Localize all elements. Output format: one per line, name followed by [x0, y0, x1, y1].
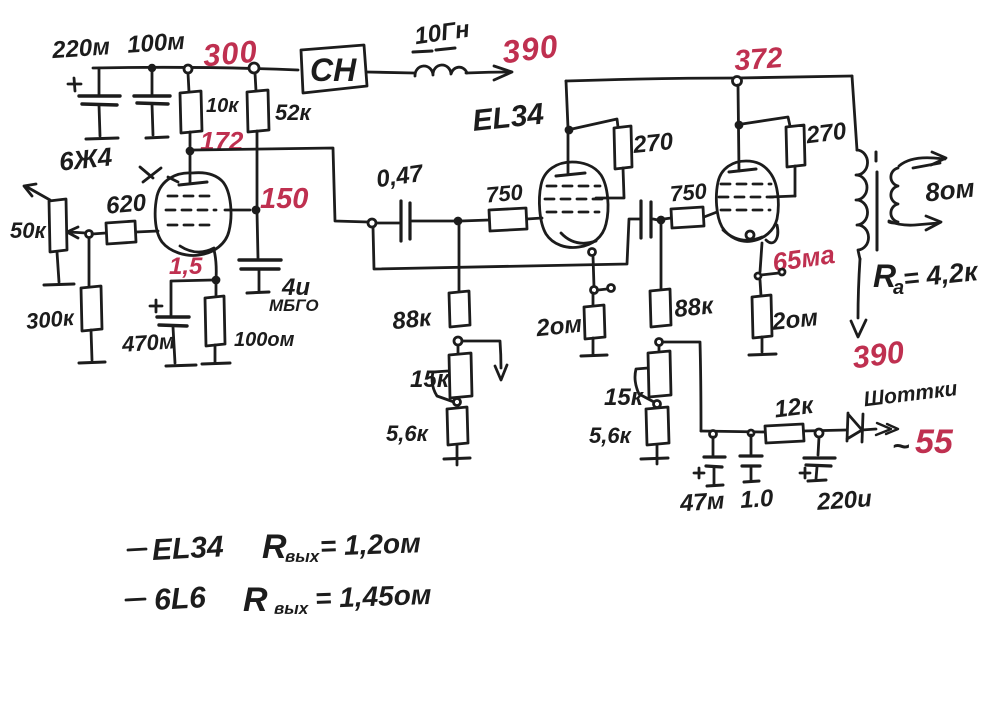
- svg-text:2ом: 2ом: [770, 304, 820, 336]
- potentiometer 50к: [49, 199, 93, 252]
- wire to bias network: [663, 342, 701, 431]
- resistor R10 750 grid stopper 2: [664, 207, 717, 228]
- secondary top lead arrow: [899, 152, 946, 168]
- wire node172 to coupling cap: [194, 148, 368, 222]
- grid cap mark V1: [140, 167, 178, 182]
- resistor R13 5,6к #2: [646, 407, 669, 464]
- wire primary to 390 arrow: [851, 259, 866, 337]
- svg-text:300к: 300к: [25, 305, 77, 334]
- secondary bottom lead arrow: [889, 216, 941, 230]
- svg-text:= 1,45ом: = 1,45ом: [315, 579, 433, 614]
- svg-text:R: R: [262, 528, 287, 566]
- node feedback tap 1: [454, 337, 462, 345]
- capacitor C7 47м: [694, 437, 725, 486]
- node 172 (plate V1): [187, 148, 193, 154]
- svg-text:вых: вых: [274, 599, 310, 618]
- diode D1 Schottky: [847, 413, 876, 442]
- node grid EL34 no.2: [658, 217, 664, 223]
- svg-text:5,6к: 5,6к: [386, 421, 430, 446]
- capacitor C8 1.0: [740, 435, 762, 482]
- svg-text:47м: 47м: [678, 487, 725, 517]
- capacitor C2 100м: [134, 65, 170, 135]
- resistor R2 52к: [247, 73, 269, 208]
- svg-text:55: 55: [915, 423, 954, 461]
- resistor R7 88к grid leak: [449, 225, 470, 327]
- svg-text:172: 172: [200, 126, 244, 156]
- node cathode V1 (1,5V): [213, 277, 219, 283]
- resistor R15 2ом cathode: [584, 293, 605, 354]
- ground for potentiometer: [44, 252, 74, 285]
- transformer core: [876, 152, 877, 250]
- ground for R5: [202, 363, 230, 364]
- svg-text:12к: 12к: [773, 392, 817, 424]
- label Ra = 4,2к: [873, 256, 980, 299]
- arrow to 390 supply: [466, 66, 512, 80]
- wire B+ rail output stage: [566, 76, 852, 81]
- capacitor C9 220и: [800, 437, 835, 481]
- tube V3 EL34: [716, 85, 778, 243]
- wire rail to transformer: [852, 76, 857, 150]
- svg-text:88к: 88к: [391, 304, 434, 335]
- arrow out of diode: [876, 423, 898, 435]
- resistor R4 300к: [81, 238, 102, 360]
- tube V2 EL34: [539, 127, 608, 256]
- wire plate V1 to second coupling cap: [373, 219, 640, 269]
- svg-text:R: R: [243, 581, 268, 619]
- cathode jack V2: [591, 256, 615, 294]
- resistor R11 88к grid leak 2: [650, 224, 671, 327]
- node 150 (screen V1): [253, 207, 259, 213]
- node bias B: [748, 430, 754, 436]
- svg-text:a: a: [893, 277, 904, 299]
- svg-text:270: 270: [631, 128, 675, 159]
- capacitor C3 4и МБГО: [239, 212, 281, 291]
- svg-text:вых: вых: [285, 547, 321, 566]
- svg-text:270: 270: [804, 118, 849, 150]
- ground for R17: [749, 354, 776, 355]
- node bias C: [815, 429, 823, 437]
- node grid EL34 no.1: [455, 218, 461, 224]
- resistor R18 12к: [765, 424, 804, 443]
- svg-text:МБГО: МБГО: [269, 296, 319, 315]
- ground for C4: [166, 365, 196, 366]
- svg-text:100м: 100м: [126, 28, 186, 59]
- svg-text:50к: 50к: [10, 218, 47, 243]
- choke block CH: [301, 45, 367, 93]
- svg-text:~: ~: [892, 430, 910, 463]
- resistor R8 15к: [449, 345, 472, 398]
- svg-text:470м: 470м: [120, 328, 176, 357]
- svg-text:8ом: 8ом: [924, 173, 976, 208]
- input arrow: [24, 184, 50, 200]
- svg-text:6Ж4: 6Ж4: [58, 141, 114, 176]
- svg-text:390: 390: [850, 334, 906, 375]
- transformer T1 primary: [856, 150, 869, 259]
- svg-text:372: 372: [733, 42, 784, 77]
- resistor R1 10к: [180, 65, 202, 150]
- bypass link across 15к #2: [635, 368, 654, 402]
- resistor R9 5,6к: [447, 407, 468, 465]
- tube V1 6Ж4: [155, 155, 231, 280]
- svg-text:390: 390: [500, 28, 560, 71]
- svg-text:10к: 10к: [206, 95, 239, 117]
- svg-text:750: 750: [669, 178, 709, 206]
- bias network wire: [701, 430, 846, 432]
- svg-text:2ом: 2ом: [534, 311, 584, 343]
- svg-text:CH: CH: [310, 52, 357, 88]
- resistor R5 100ом: [205, 283, 225, 362]
- wire screen grid V1 to node 150: [225, 209, 250, 212]
- svg-text:620: 620: [105, 189, 148, 219]
- wire rail to V2 plate: [566, 81, 568, 128]
- ground for R15: [581, 355, 607, 356]
- node bias tap 2: [656, 339, 663, 346]
- node between 15к and 5,6к: [454, 399, 461, 406]
- svg-text:220м: 220м: [50, 33, 111, 64]
- node 372: [733, 77, 742, 86]
- ground for C3: [247, 292, 269, 293]
- svg-text:1.0: 1.0: [739, 485, 775, 514]
- capacitor C5 0,47 coupling: [368, 201, 455, 241]
- capacitor C4 470м: [150, 280, 213, 363]
- bypass link across 15к: [432, 371, 454, 402]
- resistor R6 750 grid stopper: [461, 208, 542, 231]
- resistor R17 2ом cathode 2: [752, 280, 772, 352]
- resistor R12 15к #2: [648, 346, 671, 397]
- svg-text:150: 150: [260, 183, 308, 215]
- svg-text:52к: 52к: [275, 100, 312, 125]
- svg-text:15к: 15к: [410, 366, 451, 393]
- note line 2: 6L6 Rвых = 1,45ом: [126, 579, 432, 619]
- feedback arrow: [462, 341, 507, 380]
- ground for C1: [86, 138, 118, 139]
- node 300 circle: [249, 63, 259, 73]
- wire CH to inductor: [367, 72, 414, 73]
- resistor R14 270 screen: [572, 119, 632, 198]
- svg-text:15к: 15к: [604, 384, 645, 411]
- ground for R9: [444, 458, 470, 459]
- ground for C2: [146, 137, 168, 138]
- node bias A: [710, 431, 717, 438]
- cathode jack V3: [755, 243, 785, 279]
- svg-text:750: 750: [485, 179, 525, 207]
- note line 1: EL34 Rвых = 1,2ом: [128, 527, 422, 567]
- svg-text:100ом: 100ом: [234, 329, 295, 351]
- svg-text:1,5: 1,5: [169, 253, 203, 280]
- capacitor C6 coupling 2: [641, 201, 658, 238]
- resistor R16 270 screen 2: [742, 117, 805, 197]
- ground for R13: [641, 458, 668, 459]
- ground for R4: [79, 362, 105, 363]
- inductor L1 10Гн: [413, 48, 467, 76]
- svg-text:6L6: 6L6: [153, 581, 207, 617]
- svg-text:= 1,2ом: = 1,2ом: [319, 527, 421, 562]
- svg-text:EL34: EL34: [151, 530, 225, 567]
- svg-text:220и: 220и: [815, 485, 873, 516]
- node between 15к and 5,6к #2: [654, 401, 661, 408]
- capacitor C1 220м: [68, 68, 120, 136]
- resistor R3 620: [92, 221, 158, 244]
- wire B+ rail top-left: [93, 67, 298, 70]
- transformer secondary: [889, 168, 898, 223]
- svg-text:5,6к: 5,6к: [589, 423, 633, 448]
- svg-text:88к: 88к: [673, 292, 716, 323]
